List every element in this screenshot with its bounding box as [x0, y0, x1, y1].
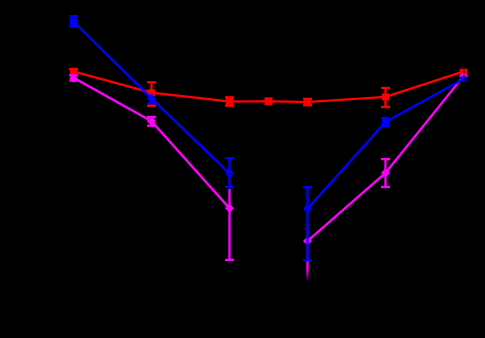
- magenta error bar k=-1: [225, 189, 234, 260]
- blue error bar k=+1: [303, 187, 312, 260]
- magenta diamond k=-3: [147, 117, 156, 126]
- blue error bar k=-5: [69, 16, 78, 26]
- magenta diamond k=+1: [303, 237, 312, 246]
- red error bar k=+1: [303, 99, 312, 106]
- magenta line right branch: [308, 76, 464, 241]
- blue open circle k=+1: [305, 206, 310, 211]
- magenta diamond k=-5: [69, 74, 78, 83]
- marker slit artifact (right cluster): [463, 70, 464, 82]
- blue error bar k=-3: [148, 94, 156, 103]
- blue error bar k=+3: [382, 118, 390, 126]
- red square k=-5: [70, 68, 77, 75]
- magenta line left branch: [74, 78, 230, 209]
- red square k=+5: [460, 69, 467, 76]
- red error bar k=-1: [225, 97, 234, 105]
- red square k=+3: [382, 93, 389, 100]
- magenta series (diamond markers): [70, 75, 464, 281]
- blue open circle k=-1: [227, 171, 232, 176]
- blue line left branch: [74, 22, 230, 174]
- blue square marker k=-5: [70, 18, 77, 25]
- red error bar k=-5: [69, 69, 78, 75]
- magenta error bar k=-5: [70, 75, 78, 80]
- magenta error bar k=+1 (fades off bottom): [306, 225, 308, 281]
- red square k=-1: [226, 98, 233, 105]
- magenta error bar k=-3: [147, 117, 156, 126]
- red square k=0: [265, 97, 273, 105]
- red error bar k=+3: [381, 88, 390, 107]
- red error bar k=+5: [460, 70, 468, 76]
- magenta error bar k=+3: [381, 159, 390, 187]
- blue error bar k=-1: [225, 158, 234, 187]
- red series (filled squares): [69, 69, 468, 107]
- blue line right branch: [308, 79, 464, 209]
- magenta diamond k=+3: [381, 168, 390, 177]
- magenta diamond k=+5: [459, 72, 468, 81]
- red square k=-3: [148, 89, 155, 96]
- red square k=+1: [304, 99, 311, 106]
- magenta diamond k=-1: [225, 204, 234, 213]
- red error bar k=-3: [147, 82, 156, 106]
- blue square marker k=+3: [382, 119, 389, 126]
- blue square marker k=+5: [461, 76, 467, 82]
- blue series (squares at edges, open circles inner): [69, 16, 464, 260]
- red line: [74, 72, 464, 103]
- blue open circle k=-3: [149, 96, 154, 101]
